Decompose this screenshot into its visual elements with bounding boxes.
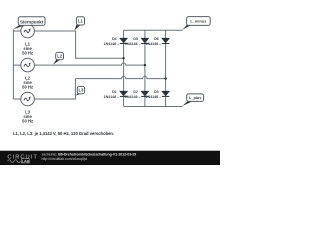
svg-text:D1: D1 <box>112 90 117 94</box>
wire column 3 <box>165 30 167 106</box>
wire stub rail to V1 <box>13 30 20 32</box>
wire phase L2 (hops over column 1) <box>34 63 144 65</box>
svg-text:LAB: LAB <box>22 159 30 163</box>
node junction L3-col3 <box>164 77 166 79</box>
svg-text:D4: D4 <box>112 37 117 41</box>
source L3 (AC) <box>21 92 35 106</box>
wire phase L3 (hops over columns 1 and 2) <box>34 76 165 99</box>
wire top rail (minus) <box>124 29 183 31</box>
node L3 flag <box>75 86 84 95</box>
svg-text:Sternpunkt: Sternpunkt <box>20 19 44 24</box>
wire stub rail to V3 <box>13 98 20 100</box>
node Sternpunkt flag <box>13 17 45 30</box>
diode D3 <box>162 91 170 96</box>
diode D5 <box>141 38 149 43</box>
wire left neutral rail <box>12 30 14 100</box>
diode D6 <box>162 38 170 43</box>
node junction L2-col2 <box>144 64 146 66</box>
node junction L1-col1 <box>122 57 124 59</box>
source L1 (AC) <box>21 24 35 38</box>
svg-text:1N4148 –: 1N4148 – <box>125 95 141 99</box>
footer bar <box>0 151 220 165</box>
wire stub rail to V2 <box>13 64 20 66</box>
node L_plus flag <box>182 94 203 106</box>
svg-text:1N4148 –: 1N4148 – <box>104 42 120 46</box>
svg-text:1N4148 –: 1N4148 – <box>125 42 141 46</box>
node L1 flag <box>74 17 84 31</box>
svg-text:L_plus: L_plus <box>189 95 202 100</box>
svg-text:D5: D5 <box>133 37 138 41</box>
wire column 2 <box>144 30 146 106</box>
svg-text:L3: L3 <box>79 87 85 92</box>
svg-text:D3: D3 <box>154 90 159 94</box>
wire phase L1 <box>34 31 123 58</box>
wire bottom rail (plus) <box>124 106 183 108</box>
svg-text:L2: L2 <box>57 53 63 58</box>
svg-text:D2: D2 <box>133 90 138 94</box>
svg-text:L1: L1 <box>78 18 84 23</box>
svg-text:50 Hz: 50 Hz <box>22 118 33 123</box>
node L_minus flag <box>182 17 210 30</box>
diode D1 <box>120 91 128 96</box>
svg-text:1N4148 –: 1N4148 – <box>146 42 162 46</box>
logo CircuitLab <box>7 154 38 163</box>
svg-text:L_minus: L_minus <box>190 18 206 23</box>
diode D2 <box>141 91 149 96</box>
svg-text:http://circuitlab.com/c6zuq6jw: http://circuitlab.com/c6zuq6jw <box>42 157 88 161</box>
svg-text:D6: D6 <box>154 37 159 41</box>
svg-text:50 Hz: 50 Hz <box>22 85 33 90</box>
svg-text:L1, L2, L3: je 1,4142 V, 50 Hz: L1, L2, L3: je 1,4142 V, 50 Hz, 120 Grad… <box>13 131 114 136</box>
diode D4 <box>120 38 128 43</box>
svg-text:50 Hz: 50 Hz <box>22 50 33 55</box>
svg-text:1N4148 –: 1N4148 – <box>146 95 162 99</box>
source L2 (AC) <box>21 58 35 72</box>
wire column 1 <box>123 30 125 106</box>
node L2 flag <box>53 52 63 64</box>
svg-text:1N4148 –: 1N4148 – <box>104 95 120 99</box>
svg-text:zacheinio: B6-Drehstrombrücken: zacheinio: B6-Drehstrombrückenschaltung-… <box>42 153 137 157</box>
